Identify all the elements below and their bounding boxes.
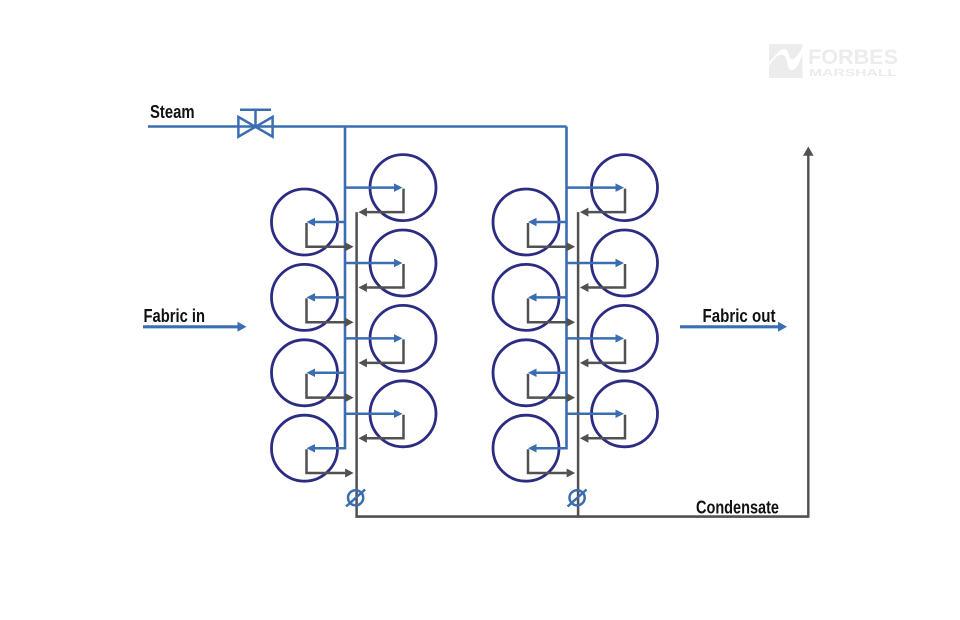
cylinder C11 (drying can, right column group 2) <box>592 230 658 296</box>
wire: steam main header <box>148 125 567 128</box>
arrow: condensate into manifold from C10 <box>567 242 576 251</box>
wire: condensate elbow from C5 <box>366 339 404 363</box>
wire: condensate elbow from C9 <box>587 189 625 213</box>
wire: condensate elbow from C14 <box>528 374 567 398</box>
svg-text:FORBES: FORBES <box>808 46 898 69</box>
arrow: condensate into manifold from C16 <box>567 469 576 478</box>
wire: condensate elbow from C7 <box>366 415 404 439</box>
cylinder C7 (drying can, right column group 1) <box>370 381 436 447</box>
arrow: condensate into manifold from C7 <box>358 434 367 443</box>
wire: condensate elbow from C8 <box>307 449 346 473</box>
cylinder C12 (drying can, left column group 2) <box>493 264 559 330</box>
wire: condensate elbow from C11 <box>587 264 625 288</box>
arrow: condensate into manifold from C6 <box>345 393 354 402</box>
wire: condensate elbow from C16 <box>528 449 567 473</box>
arrow: steam feed to C10 <box>536 221 567 224</box>
arrow: steam feed to C15 <box>567 413 617 416</box>
cylinder C16 (drying can, left column group 2) <box>493 415 559 481</box>
steam trap T1 <box>346 490 365 507</box>
arrow: condensate into manifold from C11 <box>580 283 589 292</box>
arrow: condensate into manifold from C4 <box>345 318 354 327</box>
arrow: steam feed to C3 <box>345 262 395 265</box>
cylinder C14 (drying can, left column group 2) <box>493 340 559 406</box>
arrow: condensate into manifold from C13 <box>580 358 589 367</box>
arrow: steam feed to C2 <box>314 221 345 224</box>
cylinder C3 (drying can, right column group 1) <box>370 230 436 296</box>
arrow: condensate into manifold from C12 <box>567 318 576 327</box>
arrow: condensate into manifold from C1 <box>358 208 367 217</box>
wire: steam manifold group 1 <box>344 127 347 450</box>
cylinder C10 (drying can, left column group 2) <box>493 189 559 255</box>
arrow: fabric out <box>680 325 779 328</box>
wire: condensate elbow from C13 <box>587 339 625 363</box>
arrow: steam feed to C14 <box>536 372 567 375</box>
cylinder C2 (drying can, left column group 1) <box>272 189 338 255</box>
wire: condensate elbow from C12 <box>528 298 567 322</box>
arrow: steam feed to C5 <box>345 337 395 340</box>
arrow: steam feed to C9 <box>567 186 617 189</box>
arrow: condensate into manifold from C2 <box>345 242 354 251</box>
svg-text:Fabric out: Fabric out <box>703 306 776 326</box>
valve V1 (steam isolation valve) <box>238 110 272 137</box>
wire: condensate manifold group 2 <box>577 212 580 518</box>
svg-text:Steam: Steam <box>150 102 195 122</box>
arrow: steam feed to C6 <box>314 372 345 375</box>
cylinder C6 (drying can, left column group 1) <box>272 340 338 406</box>
arrow: condensate into manifold from C15 <box>580 434 589 443</box>
cylinder C4 (drying can, left column group 1) <box>272 264 338 330</box>
svg-text:MARSHALL: MARSHALL <box>809 67 898 79</box>
steam trap T2 <box>568 490 587 507</box>
watermark logo: Forbes Marshall <box>769 44 898 79</box>
arrow: condensate into manifold from C8 <box>345 469 354 478</box>
arrow: steam feed to C8 <box>314 447 345 450</box>
wire: steam manifold group 2 <box>565 127 568 450</box>
wire: condensate manifold group 1 <box>355 212 358 518</box>
cylinder C15 (drying can, right column group 2) <box>592 381 658 447</box>
arrow: steam feed to C11 <box>567 262 617 265</box>
arrow: steam feed to C16 <box>536 447 567 450</box>
arrow: steam feed to C7 <box>345 413 395 416</box>
arrow: steam feed to C13 <box>567 337 617 340</box>
wire: condensate riser (right) <box>807 155 809 518</box>
wire: condensate elbow from C1 <box>366 189 404 213</box>
arrow: steam feed to C12 <box>536 296 567 299</box>
wire: condensate elbow from C2 <box>307 223 346 247</box>
wire: condensate elbow from C6 <box>307 374 346 398</box>
wire: condensate elbow from C4 <box>307 298 346 322</box>
arrow: condensate riser head <box>803 147 814 156</box>
arrow: steam feed to C4 <box>314 296 345 299</box>
arrow: condensate into manifold from C9 <box>580 208 589 217</box>
wire: condensate elbow from C3 <box>366 264 404 288</box>
svg-text:Fabric in: Fabric in <box>144 306 206 326</box>
svg-text:Condensate: Condensate <box>696 498 779 518</box>
cylinder C13 (drying can, right column group 2) <box>592 305 658 371</box>
cylinder C8 (drying can, left column group 1) <box>272 415 338 481</box>
arrow: condensate into manifold from C14 <box>567 393 576 402</box>
cylinder C5 (drying can, right column group 1) <box>370 305 436 371</box>
arrow: condensate into manifold from C5 <box>358 358 367 367</box>
arrow: steam feed to C1 <box>345 186 395 189</box>
arrow: condensate into manifold from C3 <box>358 283 367 292</box>
wire: condensate elbow from C15 <box>587 415 625 439</box>
cylinder C9 (drying can, right column group 2) <box>592 155 658 221</box>
arrow: fabric in <box>143 325 239 328</box>
wire: condensate return bottom header <box>356 515 809 518</box>
wire: condensate elbow from C10 <box>528 223 567 247</box>
cylinder C1 (drying can, right column group 1) <box>370 155 436 221</box>
